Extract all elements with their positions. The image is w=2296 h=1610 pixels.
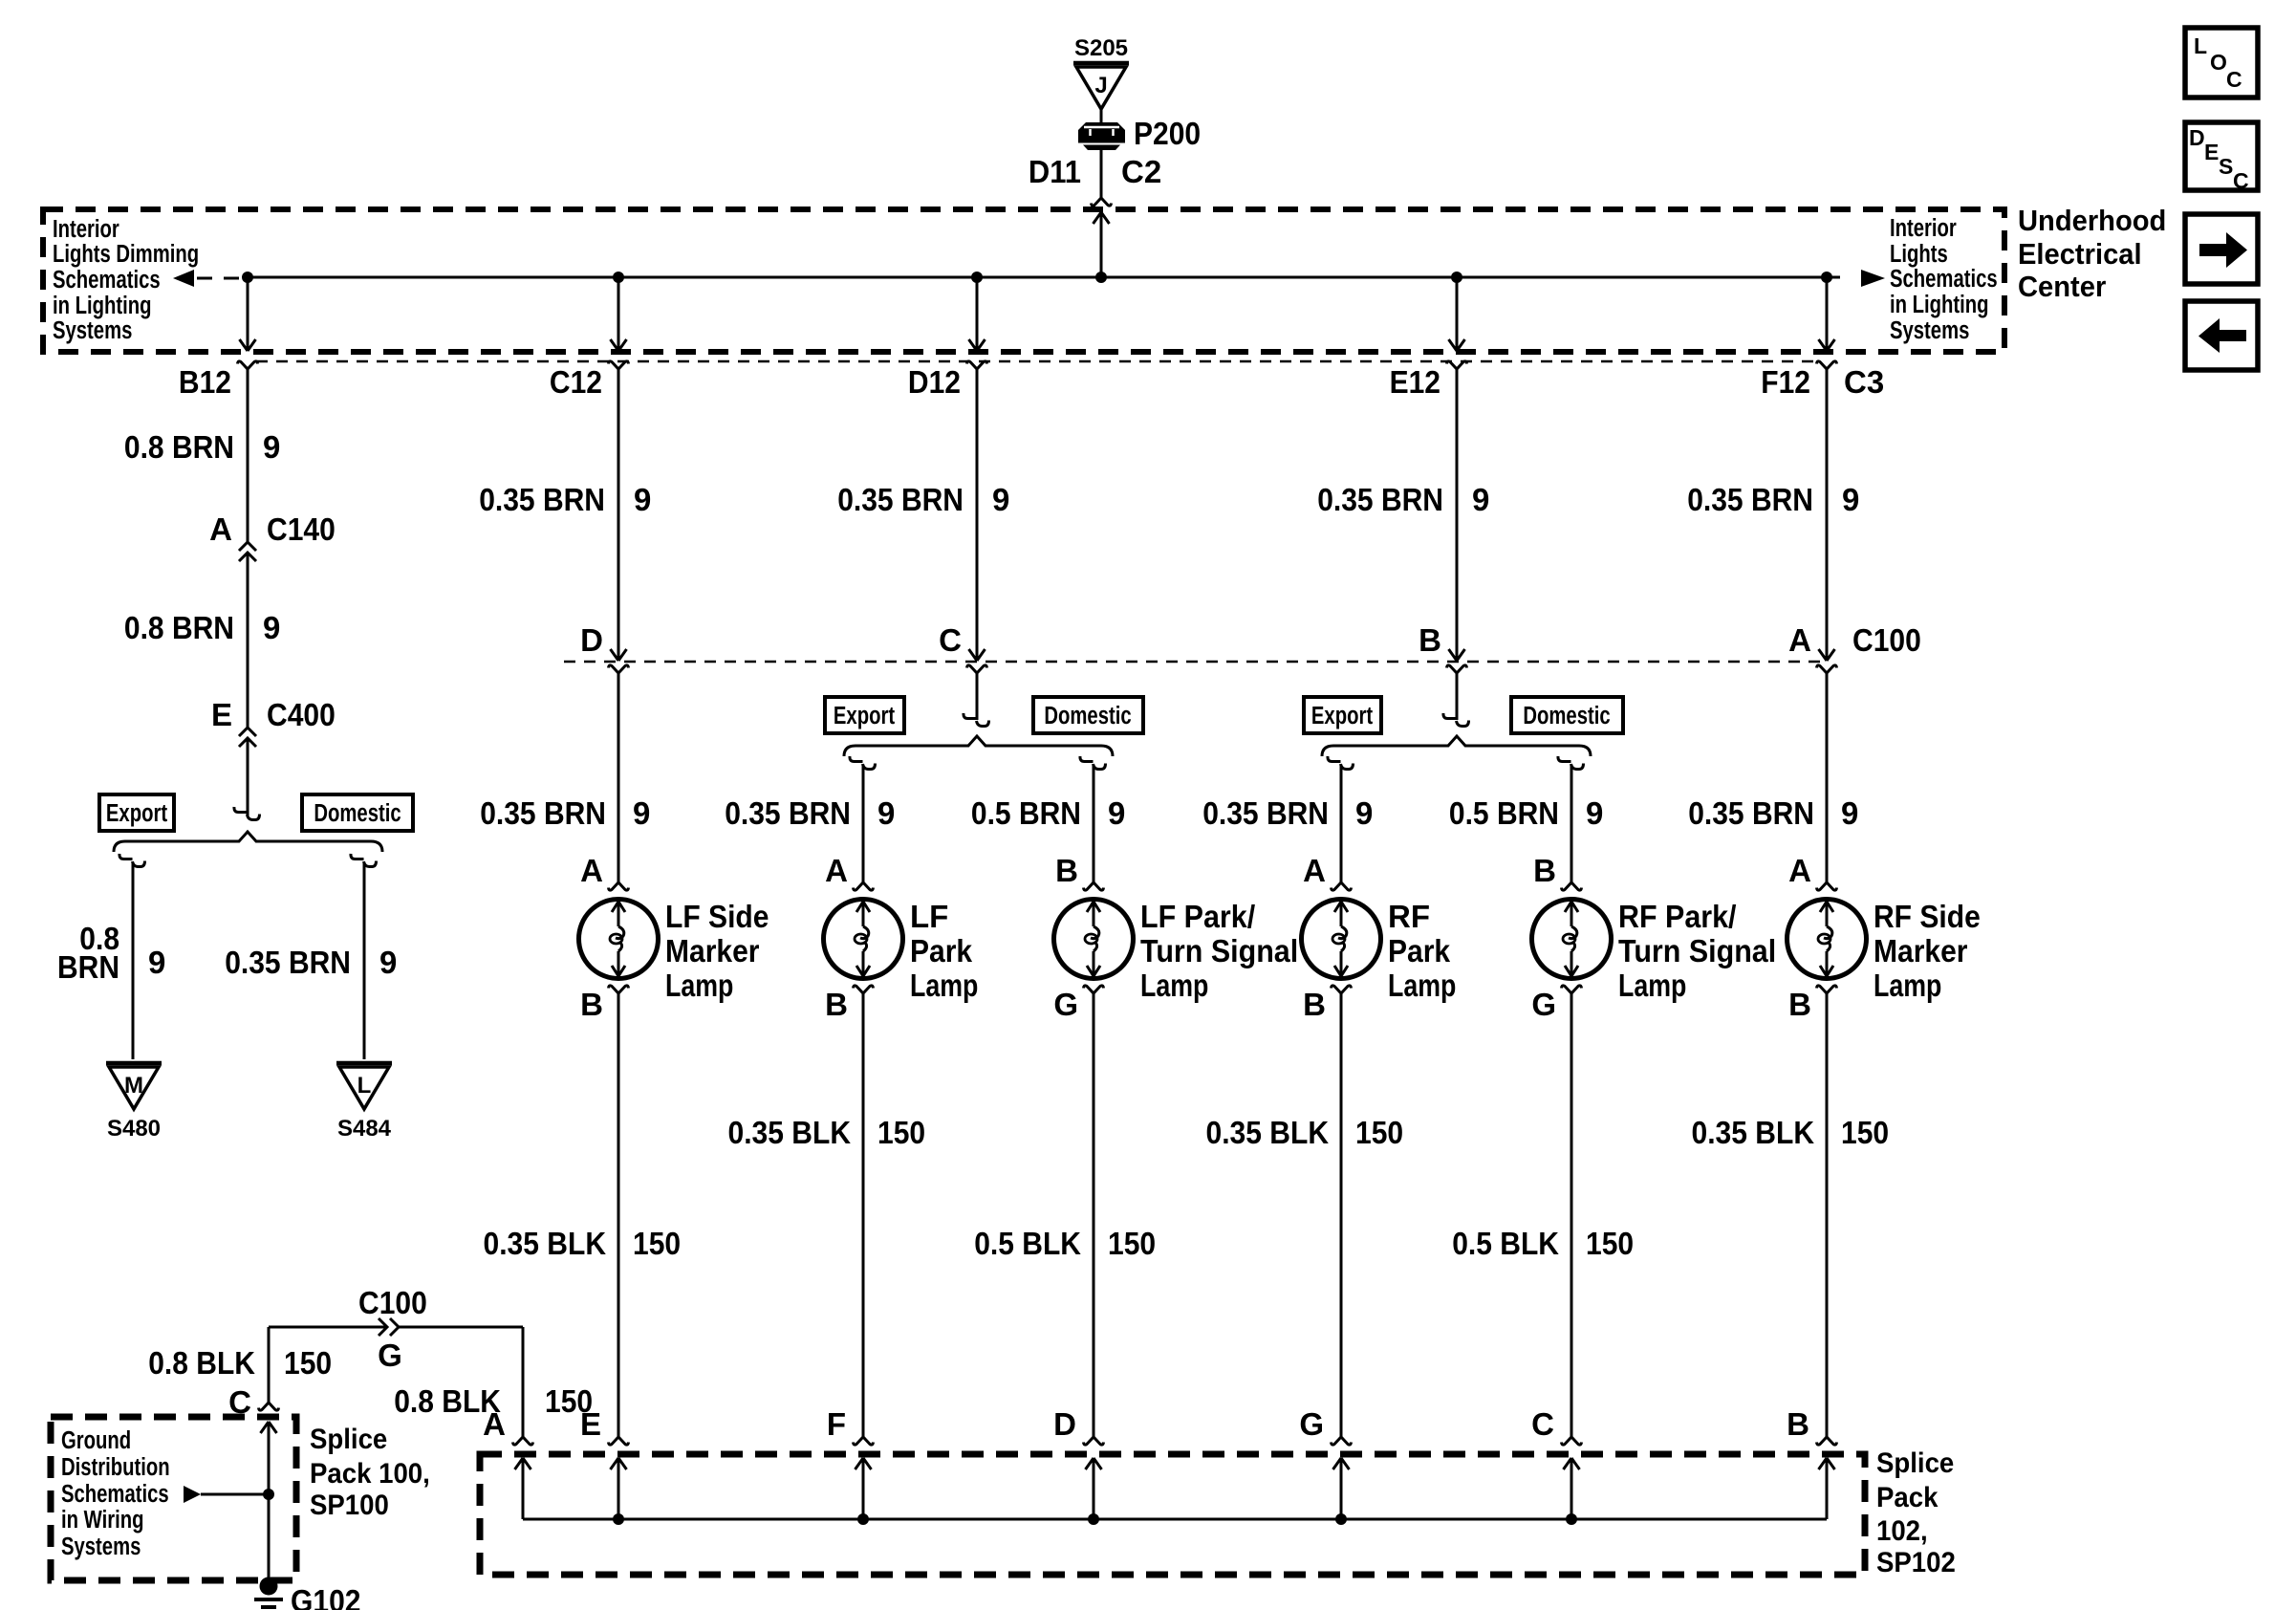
svg-text:O: O (2210, 50, 2227, 75)
svg-text:D: D (1053, 1406, 1076, 1442)
branch curl Export (RF) (1328, 756, 1341, 762)
option split curl (RF) (1443, 713, 1457, 719)
wire Export branch (RF) (1340, 765, 1343, 882)
connector C2/C3 interface dashed line (256, 360, 1816, 363)
branch curl Export (LF) (850, 756, 863, 762)
svg-text:SP100: SP100 (310, 1490, 389, 1521)
wire S205 to P200 (1100, 109, 1103, 122)
option split curl (B12) (234, 807, 248, 813)
junction dot SP102 pin E (613, 1513, 624, 1525)
arrow at UEC exit E12 (1449, 339, 1465, 351)
svg-text:Center: Center (2018, 271, 2107, 303)
svg-text:9: 9 (992, 482, 1009, 517)
svg-text:Splice: Splice (1876, 1447, 1954, 1479)
corner jumper wire to C100 (269, 1326, 385, 1329)
svg-text:0.35 BRN: 0.35 BRN (837, 482, 964, 517)
svg-text:BRN: BRN (57, 949, 119, 985)
svg-text:A: A (1788, 853, 1811, 888)
svg-text:9: 9 (634, 482, 651, 517)
branch curl S480 side (119, 854, 133, 859)
svg-text:150: 150 (1355, 1115, 1403, 1150)
svg-text:0.35 BRN: 0.35 BRN (1688, 795, 1814, 831)
svg-text:Marker: Marker (1874, 933, 1968, 968)
option brace (RF) (1322, 736, 1591, 756)
svg-text:LF Park/: LF Park/ (1140, 899, 1255, 934)
connector cup above SP102 pin G (1332, 1437, 1352, 1445)
wire LF to option split (976, 673, 979, 720)
connector cup below C100 pin D (609, 665, 629, 673)
svg-text:Turn Signal: Turn Signal (1140, 933, 1298, 968)
junction dot ground tap (263, 1489, 274, 1500)
svg-text:Systems: Systems (53, 316, 132, 344)
junction dot SP102 pin G (1335, 1513, 1347, 1525)
svg-text:C400: C400 (267, 697, 336, 732)
branch curl Domestic (LF) (1080, 756, 1094, 762)
svg-text:P200: P200 (1134, 116, 1201, 151)
junction dot at C12 (613, 272, 624, 283)
arrow at UEC exit F12 (1819, 339, 1835, 351)
svg-text:Lamp: Lamp (1618, 968, 1686, 1003)
svg-text:9: 9 (1472, 482, 1489, 517)
connector cup above SP102 pin C (1562, 1437, 1582, 1445)
svg-text:Pack: Pack (1876, 1482, 1939, 1513)
left reference arrow to Interior Lights Dimming Schematics (173, 270, 194, 287)
arrow into SP102 pin G (1333, 1458, 1350, 1469)
svg-text:S480: S480 (107, 1116, 161, 1142)
svg-text:0.35 BRN: 0.35 BRN (479, 482, 605, 517)
connector cup above SP102 pin A (513, 1437, 533, 1445)
svg-text:0.8 BLK: 0.8 BLK (148, 1345, 255, 1381)
arrow into SP102 pin C (1564, 1458, 1580, 1469)
wire C140 to C400 (247, 553, 249, 728)
junction dot at E12 (1451, 272, 1462, 283)
svg-text:G: G (1053, 987, 1078, 1022)
svg-text:Ground: Ground (61, 1426, 131, 1454)
wire Domestic branch (RF) (1570, 765, 1573, 882)
svg-text:A: A (580, 853, 603, 888)
back arrow box (2185, 301, 2258, 370)
lamp LF Park Lamp (824, 900, 903, 979)
svg-text:Lights Dimming: Lights Dimming (53, 240, 199, 268)
junction dot at B12 (242, 272, 253, 283)
Export box (LF) (825, 697, 904, 733)
lamp RF Side Marker Lamp (1787, 900, 1867, 979)
wire D12 drop from bus (976, 277, 979, 350)
svg-text:RF: RF (1388, 899, 1430, 934)
svg-text:Lights: Lights (1890, 240, 1948, 268)
svg-text:150: 150 (284, 1345, 332, 1381)
svg-text:0.5 BLK: 0.5 BLK (1452, 1226, 1559, 1261)
arrow into SP102 pin A (515, 1458, 531, 1469)
ground wire from lamp at x=647 (617, 993, 620, 1437)
svg-text:Turn Signal: Turn Signal (1618, 933, 1776, 968)
svg-text:D12: D12 (908, 364, 961, 400)
svg-text:Underhood: Underhood (2018, 205, 2166, 237)
svg-text:9: 9 (263, 610, 280, 645)
svg-text:Park: Park (1388, 933, 1451, 968)
wire to splice S484 (363, 862, 366, 1059)
text Interior Lights Dimming Schematics in Lighting Systems (53, 215, 199, 344)
connector cup below LF Park Lamp (854, 986, 874, 993)
svg-text:E: E (2204, 140, 2219, 164)
wire E12 drop from bus (1456, 277, 1459, 350)
svg-text:Domestic: Domestic (1044, 702, 1131, 729)
svg-text:Lamp: Lamp (1388, 968, 1456, 1003)
arrow into SP102 pin F (856, 1458, 872, 1469)
svg-text:B: B (1419, 622, 1441, 658)
connector cup above SP102 pin D (1084, 1437, 1104, 1445)
connector cup above LF Park Lamp (854, 882, 874, 890)
svg-text:A: A (483, 1406, 506, 1442)
text Interior Lights Schematics in Lighting Systems (1890, 214, 1998, 344)
svg-text:Export: Export (1311, 702, 1373, 729)
svg-text:0.5 BRN: 0.5 BRN (971, 795, 1081, 831)
connector cup at C2 entry (1092, 198, 1112, 206)
svg-text:0.35 BLK: 0.35 BLK (728, 1115, 852, 1150)
svg-text:F: F (827, 1406, 846, 1442)
svg-text:Domestic: Domestic (314, 799, 401, 827)
svg-text:E: E (580, 1406, 601, 1442)
svg-text:C12: C12 (550, 364, 602, 400)
arrow at C100 pin D (611, 649, 627, 661)
svg-text:Schematics: Schematics (61, 1480, 169, 1508)
text Ground Distribution Schematics in Wiring Systems (61, 1426, 170, 1560)
wire C400 to option split (247, 738, 249, 816)
svg-text:M: M (124, 1073, 143, 1099)
svg-text:150: 150 (1108, 1226, 1156, 1261)
wire C100 to corner (399, 1326, 523, 1329)
svg-text:S205: S205 (1074, 35, 1128, 61)
connector cup below UEC at F12 (1817, 361, 1837, 369)
connector cup above RF Park/Turn Signal Lamp (1562, 882, 1582, 890)
svg-text:in Wiring: in Wiring (61, 1506, 143, 1534)
connector cup above SP102 pin F (854, 1437, 874, 1445)
svg-text:C2: C2 (1121, 154, 1161, 189)
svg-text:9: 9 (877, 795, 895, 831)
Underhood Electrical Center box (43, 209, 2004, 352)
junction dot at D12 (971, 272, 983, 283)
wire into C100 at pin C (976, 369, 979, 661)
svg-text:G: G (1531, 987, 1556, 1022)
ground G102 symbol (260, 1577, 278, 1596)
Domestic box (LF) (1033, 697, 1143, 733)
wire into C100 at pin B (1456, 369, 1459, 661)
svg-text:A: A (1788, 622, 1811, 658)
svg-text:0.8 BRN: 0.8 BRN (124, 610, 234, 645)
svg-text:Schematics: Schematics (53, 266, 161, 294)
svg-text:Lamp: Lamp (1874, 968, 1941, 1003)
svg-text:Interior: Interior (1890, 214, 1957, 242)
arrow at UEC exit C12 (611, 339, 627, 351)
ground wire from lamp at x=1144 (1093, 993, 1095, 1437)
ground wire from lamp at x=1644 (1570, 993, 1573, 1437)
svg-text:Lamp: Lamp (665, 968, 733, 1003)
arrow into SP100 (261, 1422, 277, 1433)
arrow at UEC exit D12 (969, 339, 986, 351)
wire B12 to C140 (247, 369, 249, 542)
bus wire inside SP102 (523, 1518, 1827, 1521)
ground wire from lamp at x=1403 (1340, 993, 1343, 1437)
connector cup below RF Side Marker Lamp (1817, 986, 1837, 993)
svg-text:9: 9 (1108, 795, 1125, 831)
connector cup above SP100 (259, 1403, 279, 1410)
svg-text:0.35 BRN: 0.35 BRN (725, 795, 851, 831)
connector cup below UEC at D12 (967, 361, 987, 369)
lamp RF Park Lamp (1302, 900, 1381, 979)
svg-text:9: 9 (1841, 795, 1858, 831)
bus wire inside UEC (248, 276, 1827, 279)
wire to splice S480 (132, 862, 135, 1059)
svg-text:0.5 BRN: 0.5 BRN (1449, 795, 1559, 831)
svg-text:Pack 100,: Pack 100, (310, 1458, 430, 1490)
svg-text:Marker: Marker (665, 933, 760, 968)
arrow into SP102 pin B (1819, 1458, 1835, 1469)
svg-text:150: 150 (877, 1115, 925, 1150)
svg-text:Domestic: Domestic (1523, 702, 1610, 729)
svg-text:E: E (211, 697, 232, 732)
svg-text:150: 150 (1586, 1226, 1634, 1261)
svg-text:E12: E12 (1390, 364, 1440, 400)
wire LF side marker feed (617, 673, 620, 882)
option split curl (LF) (964, 713, 977, 719)
svg-text:Systems: Systems (1890, 316, 1969, 344)
svg-text:0.35 BRN: 0.35 BRN (225, 945, 351, 980)
junction dot SP102 pin F (857, 1513, 869, 1525)
wire Domestic branch (LF) (1093, 765, 1095, 882)
svg-text:RF Side: RF Side (1874, 899, 1981, 934)
svg-text:D11: D11 (1029, 154, 1081, 189)
connector cup below RF Park Lamp (1332, 986, 1352, 993)
svg-text:G: G (378, 1338, 402, 1373)
wire to ground G102 (268, 1494, 271, 1579)
svg-text:F12: F12 (1761, 364, 1810, 400)
svg-text:B: B (1533, 853, 1556, 888)
svg-text:9: 9 (1355, 795, 1373, 831)
ground reference arrow (184, 1486, 201, 1503)
svg-text:9: 9 (633, 795, 650, 831)
svg-text:A: A (209, 511, 232, 547)
svg-text:in Lighting: in Lighting (53, 292, 152, 319)
option brace (LF) (844, 736, 1113, 756)
lamp LF Side Marker Lamp (579, 900, 659, 979)
svg-text:LF: LF (910, 899, 948, 934)
svg-text:G102: G102 (291, 1583, 361, 1610)
Splice Pack 100 box (51, 1417, 296, 1580)
wire RF to option split (1456, 673, 1459, 720)
svg-text:D: D (2189, 125, 2205, 150)
svg-text:Splice: Splice (310, 1424, 387, 1455)
junction dot SP102 pin D (1088, 1513, 1099, 1525)
grommet P200 (1078, 122, 1125, 130)
arrow at C100 pin B (1449, 649, 1465, 661)
svg-text:9: 9 (1842, 482, 1859, 517)
svg-text:A: A (1303, 853, 1326, 888)
svg-text:B: B (1787, 1406, 1809, 1442)
svg-text:9: 9 (379, 945, 397, 980)
forward arrow box (2185, 214, 2258, 284)
svg-text:0.35 BRN: 0.35 BRN (480, 795, 606, 831)
connector cup above LF Park/Turn Signal Lamp (1084, 882, 1104, 890)
svg-text:G: G (1299, 1406, 1324, 1442)
svg-text:C: C (1531, 1406, 1554, 1442)
svg-text:0.35 BRN: 0.35 BRN (1687, 482, 1813, 517)
svg-text:RF Park/: RF Park/ (1618, 899, 1737, 934)
svg-text:0.35 BRN: 0.35 BRN (1317, 482, 1443, 517)
junction dot at S205 drop (1095, 272, 1107, 283)
branch curl S484 side (351, 854, 364, 859)
svg-text:SP102: SP102 (1876, 1547, 1956, 1578)
svg-text:A: A (825, 853, 848, 888)
inline connector C400 (239, 728, 256, 736)
ground wire from lamp at x=1911 (1826, 993, 1829, 1437)
svg-text:C100: C100 (1852, 622, 1921, 658)
connector cup below C100 pin B (1447, 665, 1467, 673)
connector cup above LF Side Marker Lamp (609, 882, 629, 890)
arrow into SP102 pin D (1086, 1458, 1102, 1469)
svg-text:LF Side: LF Side (665, 899, 769, 934)
connector cup below C100 pin A (1817, 665, 1837, 673)
svg-text:C: C (939, 622, 962, 658)
svg-text:Lamp: Lamp (1140, 968, 1208, 1003)
arrow into SP102 pin E (611, 1458, 627, 1469)
wire F12 drop from bus (1826, 277, 1829, 350)
svg-text:C: C (2226, 67, 2242, 92)
svg-text:Systems: Systems (61, 1533, 141, 1560)
svg-text:0.35 BLK: 0.35 BLK (1206, 1115, 1330, 1150)
wire into C100 at pin D (617, 369, 620, 661)
svg-text:J: J (1094, 73, 1107, 98)
lamp RF Park/Turn Signal Lamp (1532, 900, 1612, 979)
connector cup above SP102 pin B (1817, 1437, 1837, 1445)
arrow at C100 pin A (1819, 649, 1835, 661)
svg-text:102,: 102, (1876, 1515, 1928, 1547)
junction dot SP102 pin C (1566, 1513, 1577, 1525)
DESC legend box (2185, 122, 2258, 190)
connector cup below LF Side Marker Lamp (609, 986, 629, 993)
connector cup below RF Park/Turn Signal Lamp (1562, 986, 1582, 993)
Splice Pack 102 box (480, 1454, 1865, 1575)
svg-text:Electrical: Electrical (2018, 238, 2142, 271)
wire B12 drop from bus (247, 277, 249, 350)
option brace (left harness) (114, 832, 382, 852)
svg-text:Schematics: Schematics (1890, 265, 1998, 293)
svg-text:C: C (2233, 168, 2249, 193)
text Splice Pack 102 SP102 (1876, 1447, 1956, 1578)
svg-text:in Lighting: in Lighting (1890, 291, 1989, 318)
svg-text:B12: B12 (179, 364, 231, 400)
svg-text:D: D (580, 622, 603, 658)
svg-text:Export: Export (106, 799, 167, 827)
connector cup above SP102 pin E (609, 1437, 629, 1445)
junction dot at F12 (1821, 272, 1832, 283)
arrow at C100 pin C (969, 649, 986, 661)
inline connector C140 (239, 542, 256, 551)
inline connector C100 (ground jumper) (379, 1318, 387, 1336)
svg-text:B: B (1055, 853, 1078, 888)
arrow into UEC at C2 (1094, 212, 1110, 224)
Export box (left harness) (99, 794, 174, 831)
svg-text:9: 9 (263, 429, 280, 465)
svg-text:0.35 BRN: 0.35 BRN (1202, 795, 1329, 831)
svg-text:B: B (580, 987, 603, 1022)
svg-text:B: B (1303, 987, 1326, 1022)
svg-text:0.35 BLK: 0.35 BLK (1692, 1115, 1815, 1150)
svg-text:0.35 BLK: 0.35 BLK (484, 1226, 607, 1261)
branch curl Domestic (RF) (1558, 756, 1571, 762)
connector cup below UEC at E12 (1447, 361, 1467, 369)
svg-text:150: 150 (1841, 1115, 1889, 1150)
wire P200 to UEC (1100, 150, 1103, 198)
ground wire from lamp at x=903 (862, 993, 865, 1437)
right reference arrow to Interior Lights Schematics (1827, 276, 1840, 279)
svg-text:9: 9 (148, 945, 165, 980)
svg-text:Distribution: Distribution (61, 1453, 170, 1481)
LOC legend box (2185, 28, 2258, 98)
splice S205 symbol (1073, 61, 1129, 66)
svg-text:S: S (2219, 154, 2233, 179)
splice S484 symbol (336, 1061, 392, 1066)
connector cup below UEC at C12 (609, 361, 629, 369)
wire down to SP102 pin A (522, 1327, 525, 1437)
svg-text:Park: Park (910, 933, 973, 968)
svg-text:B: B (825, 987, 848, 1022)
svg-text:C140: C140 (267, 511, 336, 547)
svg-text:C3: C3 (1844, 364, 1884, 400)
connector cup below C100 pin C (967, 665, 987, 673)
svg-text:150: 150 (633, 1226, 681, 1261)
connector C100 dashed line (564, 661, 1827, 664)
wire C12 drop from bus (617, 277, 620, 350)
connector cup below LF Park/Turn Signal Lamp (1084, 986, 1104, 993)
connector cup above RF Park Lamp (1332, 882, 1352, 890)
svg-text:Interior: Interior (53, 215, 119, 243)
svg-text:B: B (1788, 987, 1811, 1022)
svg-text:9: 9 (1586, 795, 1603, 831)
Domestic box (left harness) (302, 794, 413, 831)
svg-text:0.5 BLK: 0.5 BLK (974, 1226, 1081, 1261)
splice S480 symbol (106, 1061, 162, 1066)
svg-text:0.8 BRN: 0.8 BRN (124, 429, 234, 465)
svg-text:C100: C100 (358, 1285, 427, 1320)
svg-text:Lamp: Lamp (910, 968, 978, 1003)
Export box (RF) (1304, 697, 1381, 733)
wire Export branch (LF) (862, 765, 865, 882)
svg-text:L: L (2194, 33, 2207, 58)
wire SP100 C pin up to jumper (268, 1327, 271, 1403)
Domestic box (RF) (1511, 697, 1623, 733)
svg-text:S484: S484 (337, 1116, 392, 1142)
wire RF side marker feed (1826, 673, 1829, 882)
svg-text:L: L (357, 1073, 372, 1099)
connector cup below UEC at B12 (238, 361, 258, 369)
connector cup above RF Side Marker Lamp (1817, 882, 1837, 890)
wire into C100 at pin A (1826, 369, 1829, 661)
text Underhood Electrical Center (2018, 205, 2166, 303)
svg-text:Export: Export (834, 702, 895, 729)
lamp LF Park/Turn Signal Lamp (1054, 900, 1134, 979)
arrow at UEC exit B12 (240, 339, 256, 351)
text Splice Pack 100 SP100 (310, 1424, 430, 1521)
